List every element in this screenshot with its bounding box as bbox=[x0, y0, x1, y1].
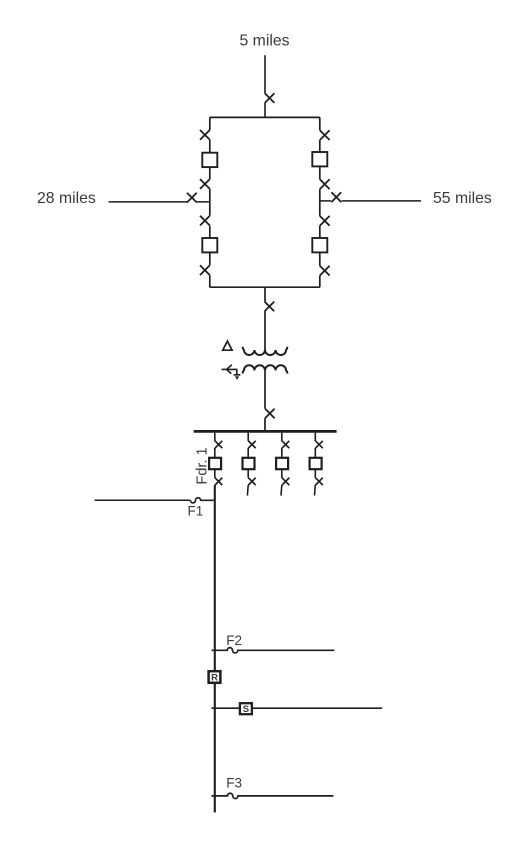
svg-text:55 miles: 55 miles bbox=[433, 190, 492, 207]
svg-text:5 miles: 5 miles bbox=[240, 32, 290, 49]
svg-text:F1: F1 bbox=[188, 503, 204, 518]
svg-text:S: S bbox=[243, 704, 249, 715]
svg-text:F3: F3 bbox=[226, 776, 242, 791]
svg-text:F2: F2 bbox=[226, 633, 242, 648]
svg-text:28 miles: 28 miles bbox=[37, 190, 96, 207]
svg-text:Fdr. 1: Fdr. 1 bbox=[195, 447, 211, 484]
svg-text:R: R bbox=[211, 672, 218, 683]
